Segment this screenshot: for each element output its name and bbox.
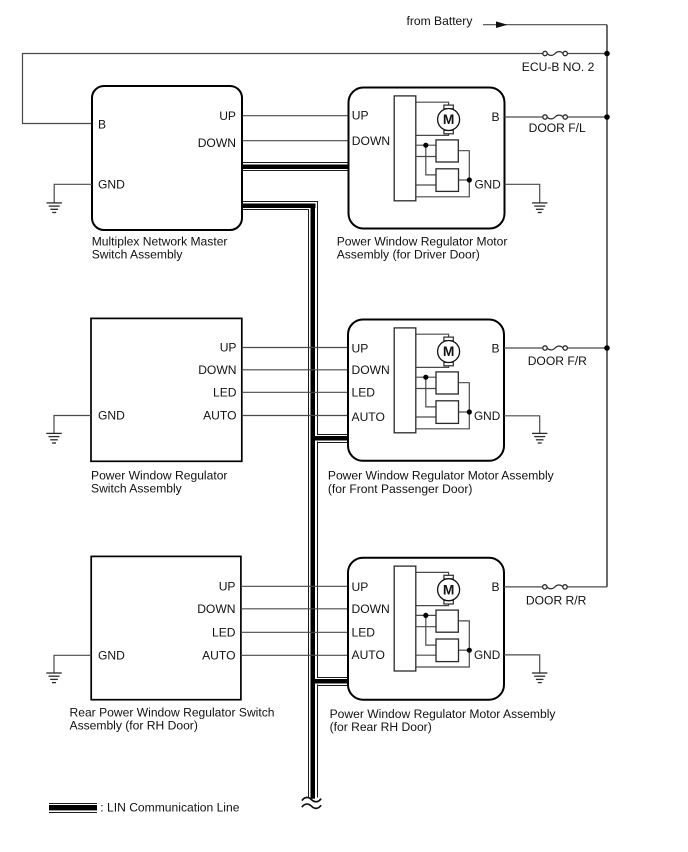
wire: LED rear switch to rear motor [241, 631, 348, 633]
svg-text:UP: UP [352, 342, 369, 356]
junction: bus / ECU-B [604, 51, 610, 57]
wire: DOWN rear switch to rear motor [241, 608, 348, 610]
svg-text:LED: LED [212, 626, 236, 640]
wire: from Battery feed line [483, 21, 607, 28]
wire: AUTO rear switch to rear motor [241, 654, 348, 656]
wire: AUTO fp switch to fp motor [242, 415, 349, 417]
svg-text:DOWN: DOWN [198, 363, 236, 377]
ground: master switch [47, 203, 62, 213]
LIN line: master to driver door motor [242, 163, 349, 171]
svg-text:B: B [492, 110, 500, 124]
LIN line: branch to front passenger motor [315, 435, 349, 443]
svg-text:DOOR F/L: DOOR F/L [529, 121, 586, 135]
LIN line: vertical trunk [309, 202, 318, 799]
svg-text:GND: GND [474, 409, 500, 423]
wire: DOOR R/R fuse to bus [565, 586, 607, 588]
legend: LIN communication line sample [49, 804, 97, 813]
svg-text:Power Window Regulator: Power Window Regulator [91, 468, 227, 482]
ground: driver motor [532, 203, 547, 213]
box: Power Window Regulator Switch Assembly (front passenger) [91, 318, 242, 461]
svg-text:B: B [492, 342, 500, 356]
box: Power Window Regulator Motor Assembly (for Rear RH Door) [348, 558, 504, 700]
motor unit internals (front passenger) [394, 328, 472, 433]
svg-text:LED: LED [352, 626, 376, 640]
svg-text:AUTO: AUTO [352, 410, 385, 424]
svg-text:UP: UP [220, 341, 237, 355]
wire: fp switch GND to ground [54, 416, 91, 434]
wire: B of master switch to ECU-B fuse [23, 54, 545, 124]
ground: rear motor [532, 673, 547, 683]
svg-text:B: B [492, 580, 500, 594]
svg-text:UP: UP [219, 109, 236, 123]
fuse ECU-B NO. 2 [543, 51, 568, 55]
svg-text:GND: GND [474, 648, 500, 662]
svg-text:AUTO: AUTO [352, 648, 385, 662]
wire: UP fp switch to fp motor [242, 347, 349, 349]
svg-text:GND: GND [98, 409, 125, 423]
ground: fp motor [532, 433, 547, 443]
wire: fp motor B to DOOR F/R fuse [504, 347, 545, 349]
svg-text:UP: UP [219, 580, 236, 594]
svg-text:Assembly (for Driver Door): Assembly (for Driver Door) [337, 248, 480, 262]
node: battery bus (right vertical) [606, 25, 608, 587]
LIN line: master to vertical trunk [242, 202, 318, 210]
wire: UP master to driver motor [242, 115, 349, 117]
wire: rear motor B to DOOR R/R fuse [504, 586, 545, 588]
ground: rear switch [46, 673, 61, 683]
box: Rear Power Window Regulator Switch Assembly (for RH Door) [91, 556, 241, 699]
svg-text:DOOR F/R: DOOR F/R [528, 354, 587, 368]
wire: LED fp switch to fp motor [242, 391, 349, 393]
svg-text:UP: UP [352, 109, 369, 123]
ground: fp switch [46, 433, 61, 443]
box: Power Window Regulator Motor Assembly (for Front Passenger Door) [348, 320, 504, 461]
svg-text:LED: LED [213, 386, 237, 400]
wire: DOOR F/R fuse to bus [565, 347, 607, 349]
svg-text:Switch Assembly: Switch Assembly [91, 482, 183, 496]
break symbol at bottom of LIN trunk [302, 797, 321, 808]
wire: rear switch GND to ground [54, 655, 91, 673]
svg-text:DOOR R/R: DOOR R/R [526, 594, 587, 608]
junction: bus / DOOR F/L [604, 114, 610, 120]
svg-text:DOWN: DOWN [197, 602, 235, 616]
svg-text:Switch Assembly: Switch Assembly [92, 248, 184, 262]
svg-text:DOWN: DOWN [352, 134, 390, 148]
LIN line: branch to rear RH motor [315, 678, 349, 686]
svg-text:AUTO: AUTO [202, 648, 235, 662]
svg-text:(for Rear RH Door): (for Rear RH Door) [330, 720, 432, 734]
svg-text:Rear Power Window Regulator Sw: Rear Power Window Regulator Switch [70, 705, 275, 719]
wire: DOWN master to driver motor [242, 140, 349, 142]
svg-text:Multiplex Network Master: Multiplex Network Master [92, 234, 228, 248]
svg-text:DOWN: DOWN [352, 363, 390, 377]
wire: driver motor GND to ground [505, 184, 540, 203]
motor unit internals (rear RH) [394, 566, 472, 671]
wire: fp motor GND to ground [504, 416, 540, 434]
svg-text:GND: GND [98, 178, 125, 192]
wire: master GND to ground [54, 184, 92, 203]
box: Power Window Regulator Motor Assembly (for Driver Door) [349, 88, 505, 229]
svg-text:AUTO: AUTO [203, 409, 236, 423]
svg-text:GND: GND [98, 648, 125, 662]
fuse DOOR R/R [543, 585, 568, 589]
svg-text:: LIN Communication Line: : LIN Communication Line [100, 800, 239, 814]
svg-text:DOWN: DOWN [198, 136, 236, 150]
svg-text:Power Window Regulator Motor A: Power Window Regulator Motor Assembly [330, 707, 557, 721]
svg-text:Assembly (for RH Door): Assembly (for RH Door) [70, 719, 198, 733]
motor unit internals (driver door) [394, 96, 472, 201]
svg-text:(for Front Passenger Door): (for Front Passenger Door) [328, 482, 473, 496]
fuse DOOR F/R [543, 346, 568, 350]
wire: driver motor B to DOOR F/L fuse [505, 116, 545, 118]
wire: rear motor GND to ground [504, 655, 540, 673]
svg-text:DOWN: DOWN [352, 602, 390, 616]
fuse DOOR F/L [543, 115, 568, 119]
svg-text:B: B [98, 118, 106, 132]
junction: bus / DOOR F/R [604, 345, 610, 351]
svg-text:ECU-B NO. 2: ECU-B NO. 2 [522, 60, 595, 74]
svg-text:Power Window Regulator Motor A: Power Window Regulator Motor Assembly [328, 469, 555, 483]
wire: DOWN fp switch to fp motor [242, 369, 349, 371]
box: Multiplex Network Master Switch Assembly [92, 86, 242, 230]
svg-text:GND: GND [475, 177, 501, 191]
svg-text:Power Window Regulator Motor: Power Window Regulator Motor [337, 234, 508, 248]
svg-text:from Battery: from Battery [407, 14, 474, 28]
svg-text:LED: LED [352, 385, 376, 399]
wire: ECU-B fuse to bus [565, 53, 607, 55]
svg-text:UP: UP [352, 580, 369, 594]
wire: DOOR F/L fuse to bus [565, 116, 607, 118]
wire: UP rear switch to rear motor [241, 585, 348, 587]
